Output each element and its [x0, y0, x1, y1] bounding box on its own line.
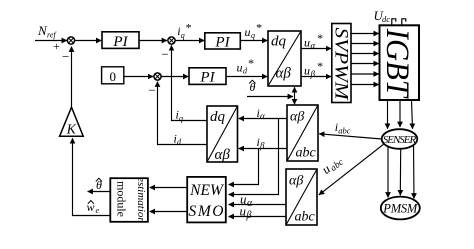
svg-text:dc: dc — [382, 14, 390, 24]
svg-text:*: * — [317, 31, 323, 45]
svg-text:SENSER: SENSER — [383, 134, 417, 146]
svg-text:β: β — [310, 69, 316, 79]
svg-text:+: + — [53, 39, 60, 53]
svg-text:PI: PI — [112, 34, 128, 50]
svg-text:u: u — [304, 36, 310, 50]
svg-text:αβ: αβ — [276, 66, 292, 82]
svg-text:NEW: NEW — [189, 182, 225, 199]
svg-text:α: α — [260, 111, 265, 121]
svg-text:SVPWM: SVPWM — [331, 28, 352, 101]
svg-text:PI: PI — [214, 34, 230, 50]
svg-text:K: K — [66, 122, 77, 137]
svg-text:abc: abc — [295, 210, 316, 225]
svg-text:PMSM: PMSM — [382, 201, 418, 215]
svg-text:u: u — [245, 25, 251, 39]
svg-text:β: β — [246, 210, 252, 221]
svg-text:q: q — [251, 31, 255, 40]
svg-text:abc: abc — [296, 146, 317, 161]
svg-text:dq: dq — [271, 34, 287, 50]
svg-text:q: q — [179, 114, 183, 123]
svg-text:w: w — [87, 200, 95, 214]
svg-text:αβ: αβ — [290, 110, 304, 125]
svg-text:u: u — [240, 203, 247, 218]
svg-text:β: β — [259, 140, 265, 150]
svg-text:*: * — [185, 21, 191, 35]
svg-text:*: * — [256, 21, 262, 35]
svg-text:SMO: SMO — [189, 203, 224, 220]
svg-text:*: * — [317, 59, 323, 73]
svg-text:α: α — [247, 198, 253, 209]
svg-text:u: u — [304, 64, 310, 78]
svg-text:*: * — [248, 56, 254, 70]
svg-text:αβ: αβ — [215, 147, 231, 163]
svg-text:−: − — [161, 47, 168, 62]
svg-text:dq: dq — [210, 109, 226, 125]
svg-text:estimation: estimation — [135, 177, 147, 223]
svg-text:PI: PI — [199, 70, 215, 86]
svg-text:0: 0 — [109, 69, 116, 84]
svg-text:α: α — [311, 41, 316, 51]
svg-text:abc: abc — [338, 125, 351, 135]
svg-text:−: − — [148, 83, 155, 98]
svg-text:module: module — [114, 181, 128, 217]
svg-text:−: − — [62, 49, 69, 64]
svg-text:e: e — [96, 206, 100, 215]
svg-text:u: u — [237, 61, 243, 75]
svg-text:IGBT: IGBT — [379, 28, 415, 99]
svg-text:αβ: αβ — [289, 174, 303, 189]
